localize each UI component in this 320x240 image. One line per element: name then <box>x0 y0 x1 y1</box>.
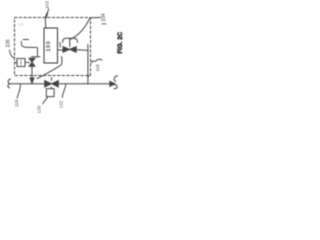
junction dot on dashed border <box>31 75 33 77</box>
leader label 120 (below component box) <box>43 97 48 104</box>
svg-text:116: 116 <box>95 64 100 72</box>
fuse F2 (horizontal bowtie) <box>63 47 70 53</box>
junction dot at border crossing <box>87 75 89 77</box>
arrowhead <box>110 81 115 86</box>
dashed boundary box 100 <box>15 18 91 76</box>
svg-text:106: 106 <box>6 39 12 48</box>
curl at left line end <box>8 79 11 88</box>
leader label 122 (bottom right) <box>62 85 66 98</box>
squiggly leader label 116 (right of border) <box>92 59 103 63</box>
transistor stem <box>69 38 71 46</box>
output line (node OUT) <box>10 83 110 85</box>
fuse F1 (vertical bowtie) <box>29 58 35 62</box>
block 110 (central rectangle) <box>44 28 58 63</box>
transistor Q1 (dome) <box>63 38 78 42</box>
svg-text:102: 102 <box>45 1 50 9</box>
component box below line <box>46 89 54 97</box>
svg-text:100: 100 <box>18 22 25 27</box>
svg-text:FIG. 2C: FIG. 2C <box>118 31 124 53</box>
left component box <box>17 59 25 67</box>
curl label at arrow end <box>114 76 117 82</box>
wire fuse F2 to right branch <box>76 49 88 52</box>
svg-text:118: 118 <box>14 99 19 107</box>
wire block to fuse F2 <box>58 49 64 51</box>
small tick label near left wire <box>23 39 29 41</box>
svg-text:120: 120 <box>37 105 42 113</box>
leader from label 104 over corner to Q1 <box>71 18 101 40</box>
fuse top bar <box>32 56 41 58</box>
tick above fuse F3 <box>51 78 53 81</box>
leader from 106 to border <box>10 50 15 58</box>
fuse F3 on output line <box>45 81 52 87</box>
arrowhead onto output line <box>30 78 34 83</box>
wire left box to fuse F1 <box>25 62 29 64</box>
wire from label 102 into block top <box>45 9 48 28</box>
svg-text:104: 104 <box>101 13 107 22</box>
stem to component box <box>50 87 52 89</box>
svg-text:100: 100 <box>46 40 52 51</box>
hooked wire to fuse branch <box>21 42 37 57</box>
wire border to left box <box>15 62 18 64</box>
leader below block <box>37 57 62 79</box>
svg-text:122: 122 <box>59 100 64 108</box>
wire fuse down <box>31 66 33 77</box>
small tick near block right <box>59 43 62 47</box>
leader label 118 (bottom left) <box>17 85 20 99</box>
right vertical wire <box>87 45 89 84</box>
